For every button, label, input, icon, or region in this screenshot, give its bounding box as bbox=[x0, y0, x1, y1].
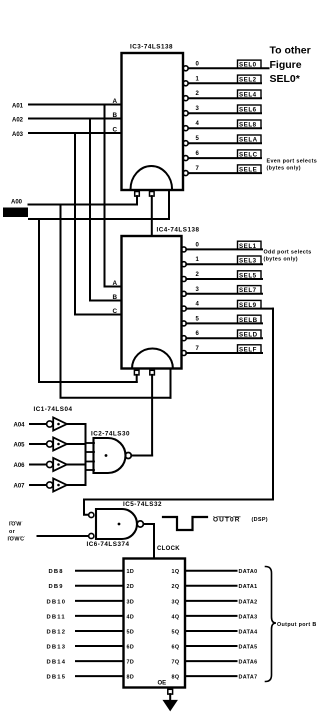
svg-text:2: 2 bbox=[196, 91, 200, 97]
wire IC3 output 4 bbox=[188, 127, 261, 129]
pin IC4 G2B bubble bbox=[150, 370, 155, 375]
node SELD* label box bbox=[238, 330, 262, 338]
gate IC5 74LS32 OR (DeMorgan AND body) bbox=[96, 509, 137, 539]
svg-text:A: A bbox=[113, 280, 118, 287]
pin bubble IC4 Y1 bbox=[181, 262, 186, 267]
svg-text:8D: 8D bbox=[127, 675, 135, 681]
wire pin 1Q to DATA0 bbox=[185, 570, 237, 572]
wire IC4 output 5 bbox=[186, 322, 262, 324]
svg-text:6: 6 bbox=[196, 331, 200, 337]
svg-text:1D: 1D bbox=[127, 569, 135, 575]
svg-text:7Q: 7Q bbox=[172, 660, 180, 666]
node SEL5* label box bbox=[238, 271, 262, 279]
svg-text:SELC: SELC bbox=[239, 152, 258, 159]
wire IOWC to IC5 input bbox=[38, 535, 89, 537]
svg-text:3D: 3D bbox=[127, 599, 135, 605]
wire IC4 G2B / IC2 output riser bbox=[151, 375, 153, 456]
svg-text:Figure: Figure bbox=[270, 59, 302, 71]
node SEL6* label box bbox=[238, 105, 262, 113]
svg-text:SEL5: SEL5 bbox=[239, 272, 257, 279]
node SELF* label box bbox=[238, 345, 262, 353]
wire DB13 to pin 6D bbox=[76, 645, 124, 647]
svg-text:SELA: SELA bbox=[239, 137, 258, 144]
node SELE* label box bbox=[238, 165, 262, 173]
node SELC* label box bbox=[238, 150, 262, 158]
svg-text:IC6-74LS374: IC6-74LS374 bbox=[87, 541, 130, 548]
pin IC3 G2B bubble bbox=[150, 192, 155, 197]
wire BHE branch down to IC4 G2A bbox=[39, 219, 137, 382]
svg-text:(bytes only): (bytes only) bbox=[267, 166, 301, 172]
wire IC3 output 2 bbox=[188, 97, 261, 99]
wire IC3 output 1 bbox=[188, 82, 261, 84]
wire BHE to IC3 G1/G2B bbox=[29, 218, 169, 220]
svg-text:DATA3: DATA3 bbox=[239, 614, 258, 620]
node SELB* label box bbox=[238, 315, 262, 323]
pin bubble IC4 Y5 bbox=[181, 321, 186, 326]
IC4 enable AND dome bbox=[132, 348, 173, 368]
wire IC3 output 0 bbox=[188, 67, 268, 69]
wire A03 drop to IC4 pin C bbox=[75, 133, 122, 315]
svg-text:SEL6: SEL6 bbox=[239, 107, 257, 114]
svg-text:5: 5 bbox=[196, 136, 200, 142]
svg-text:1: 1 bbox=[196, 76, 200, 82]
wire IC3 G2B stub down to IC4 top bbox=[151, 196, 153, 236]
svg-text:Even port selects: Even port selects bbox=[267, 159, 318, 165]
svg-text:DATA7: DATA7 bbox=[239, 675, 258, 681]
svg-text:SEL0: SEL0 bbox=[239, 62, 257, 69]
wire IC4 output 3 bbox=[186, 293, 262, 295]
svg-text:DB14: DB14 bbox=[47, 660, 67, 666]
svg-text:DATA2: DATA2 bbox=[239, 599, 258, 605]
svg-text:DB8: DB8 bbox=[49, 569, 64, 575]
svg-text:8Q: 8Q bbox=[172, 675, 180, 681]
inverter 1 of IC1 (bubble + triangle) bbox=[47, 421, 53, 427]
node SEL9* label box bbox=[238, 300, 262, 308]
svg-text:4Q: 4Q bbox=[172, 614, 180, 620]
pin bubble IC4 Y7 bbox=[181, 351, 186, 356]
svg-text:7D: 7D bbox=[127, 660, 135, 666]
wire IC3 output 5 bbox=[188, 142, 261, 144]
svg-text:A00: A00 bbox=[11, 200, 23, 206]
pin bubble IC3 Y2 bbox=[183, 96, 188, 101]
wire A06 to inverter bbox=[30, 464, 47, 466]
svg-text:SEL3: SEL3 bbox=[239, 258, 257, 265]
svg-text:SEL9: SEL9 bbox=[239, 302, 257, 309]
svg-text:7: 7 bbox=[196, 166, 200, 172]
svg-text:IC2-74LS30: IC2-74LS30 bbox=[91, 431, 130, 438]
wire inverter 3 output to IC2 input rail bbox=[67, 464, 86, 466]
gate IC2 74LS30 NAND body bbox=[94, 438, 126, 473]
node SEL8* label box bbox=[238, 120, 262, 128]
svg-text:1Q: 1Q bbox=[172, 569, 180, 575]
svg-text:DATA0: DATA0 bbox=[239, 569, 258, 575]
svg-text:A04: A04 bbox=[14, 423, 26, 429]
svg-text:CLOCK: CLOCK bbox=[157, 546, 180, 552]
node SEL0* label box bbox=[238, 60, 262, 68]
wire pin 3Q to DATA2 bbox=[185, 600, 237, 602]
wire IC4 output 2 bbox=[186, 278, 262, 280]
svg-text:DB10: DB10 bbox=[47, 599, 67, 605]
svg-text:(bytes only): (bytes only) bbox=[264, 257, 298, 263]
wire A01 drop to IC4 pin A bbox=[105, 105, 122, 287]
pin bubble IC5 input bottom bbox=[89, 533, 94, 538]
node clock waveform pulse bbox=[163, 517, 207, 530]
pin bubble IC5 input top bbox=[89, 512, 94, 517]
wire SEL9 route right and down to IC5 input bbox=[84, 309, 273, 515]
svg-text:3Q: 3Q bbox=[172, 599, 180, 605]
svg-text:SEL0*: SEL0* bbox=[270, 73, 301, 85]
svg-text:A07: A07 bbox=[14, 484, 26, 490]
IC IC4 74LS138 decoder body bbox=[122, 236, 182, 369]
wire DB8 to pin 1D bbox=[76, 570, 124, 572]
wire pin 5Q to DATA4 bbox=[185, 630, 237, 632]
svg-text:SELE: SELE bbox=[239, 167, 257, 174]
svg-text:or: or bbox=[9, 529, 16, 535]
pin bubble IC3 Y4 bbox=[183, 126, 188, 131]
pin bubble IC3 Y0 bbox=[183, 66, 188, 71]
IC IC3 74LS138 decoder body bbox=[122, 53, 184, 190]
svg-text:SELF: SELF bbox=[239, 346, 257, 353]
wire IC4 output 0 bbox=[186, 248, 262, 250]
svg-text:C: C bbox=[113, 308, 118, 315]
svg-text:DATA4: DATA4 bbox=[239, 629, 258, 635]
wire inverter 4 output to IC2 input rail bbox=[67, 484, 86, 486]
svg-text:4: 4 bbox=[196, 121, 200, 127]
svg-text:OUT0R: OUT0R bbox=[213, 517, 241, 524]
pin bubble IC2 output bbox=[125, 453, 131, 459]
svg-text:A02: A02 bbox=[12, 118, 24, 124]
wire DB15 to pin 8D bbox=[76, 675, 124, 677]
pin bubble IC5 output bbox=[137, 521, 143, 527]
svg-text:1: 1 bbox=[196, 257, 200, 263]
brace Output port B bbox=[266, 567, 277, 682]
svg-text:DB9: DB9 bbox=[49, 584, 64, 590]
wire inverter 2 output to IC2 input rail bbox=[67, 443, 86, 445]
wire inverter 1 output to IC2 input rail bbox=[67, 423, 86, 425]
pin bubble IC3 Y1 bbox=[183, 81, 188, 86]
svg-text:2: 2 bbox=[196, 272, 200, 278]
node BHE label bbox=[3, 208, 28, 218]
svg-text:SELD: SELD bbox=[239, 332, 258, 339]
wire IC4 output 6 bbox=[186, 337, 262, 339]
wire OE to ground bbox=[169, 694, 171, 701]
wire DB14 to pin 7D bbox=[76, 660, 124, 662]
svg-text:SELB: SELB bbox=[239, 317, 258, 324]
wire A00 branch down to IC4 enable rail bbox=[61, 205, 171, 398]
wire IC4 output 4 bbox=[186, 308, 273, 310]
wire IC3 output 3 bbox=[188, 112, 261, 114]
wire A07 to inverter bbox=[30, 484, 47, 486]
wire IC2 input stubs bbox=[86, 442, 95, 444]
node SEL1* label box bbox=[238, 241, 262, 249]
svg-text:IC5-74LS32: IC5-74LS32 bbox=[123, 501, 162, 508]
svg-text:3: 3 bbox=[196, 287, 200, 293]
wire IC2 input collector rail bbox=[85, 424, 87, 485]
svg-text:Output port B: Output port B bbox=[277, 622, 317, 628]
wire DB11 to pin 4D bbox=[76, 615, 124, 617]
pin bubble IC4 Y4 bbox=[181, 306, 186, 311]
wire A01 to IC3 pin A bbox=[29, 104, 122, 106]
svg-text:SEL4: SEL4 bbox=[239, 92, 257, 99]
wire DB10 to pin 3D bbox=[76, 600, 124, 602]
node SEL2* label box bbox=[238, 75, 262, 83]
wire IC4 output 1 bbox=[186, 263, 262, 265]
svg-text:5Q: 5Q bbox=[172, 629, 180, 635]
svg-text:6: 6 bbox=[196, 151, 200, 157]
svg-text:DB15: DB15 bbox=[47, 675, 67, 681]
wire A05 to inverter bbox=[30, 443, 47, 445]
svg-text:2D: 2D bbox=[127, 584, 135, 590]
svg-text:6D: 6D bbox=[127, 644, 135, 650]
svg-text:0: 0 bbox=[196, 61, 200, 67]
node SEL3* label box bbox=[238, 256, 262, 264]
pin bubble IC3 Y3 bbox=[183, 111, 188, 116]
svg-text:DATA1: DATA1 bbox=[239, 584, 258, 590]
wire A04 to inverter bbox=[30, 423, 47, 425]
svg-text:(DSP): (DSP) bbox=[252, 517, 268, 523]
wire pin 2Q to DATA1 bbox=[185, 585, 237, 587]
pin bubble IC4 Y3 bbox=[181, 291, 186, 296]
wire IC4 output 7 bbox=[186, 352, 262, 354]
svg-text:SEL7: SEL7 bbox=[239, 287, 257, 294]
pin bubble IC3 Y6 bbox=[183, 156, 188, 161]
svg-text:5: 5 bbox=[196, 316, 200, 322]
svg-text:2Q: 2Q bbox=[172, 584, 180, 590]
svg-text:DB12: DB12 bbox=[47, 629, 67, 635]
wire pin 4Q to DATA3 bbox=[185, 615, 237, 617]
svg-text:DB11: DB11 bbox=[47, 614, 66, 620]
svg-text:7: 7 bbox=[196, 346, 200, 352]
svg-text:To other: To other bbox=[270, 45, 311, 57]
pin bubble IC4 Y6 bbox=[181, 336, 186, 341]
svg-text:B: B bbox=[113, 294, 118, 301]
svg-text:5D: 5D bbox=[127, 629, 135, 635]
svg-text:DATA5: DATA5 bbox=[239, 644, 258, 650]
svg-text:SEL2: SEL2 bbox=[239, 77, 257, 84]
wire IC3 output 7 bbox=[188, 172, 261, 174]
svg-text:BHE: BHE bbox=[6, 211, 21, 218]
svg-text:A01: A01 bbox=[12, 104, 24, 110]
svg-text:IC1-74LS04: IC1-74LS04 bbox=[34, 406, 73, 413]
pin bubble IC3 Y7 bbox=[183, 171, 188, 176]
svg-text:A03: A03 bbox=[12, 132, 24, 138]
node SEL4* label box bbox=[238, 90, 262, 98]
node SEL7* label box bbox=[238, 286, 262, 294]
inverter 2 of IC1 (bubble + triangle) bbox=[47, 441, 53, 447]
ground bbox=[164, 701, 177, 711]
pin bubble IC3 Y5 bbox=[183, 141, 188, 146]
svg-text:DATA6: DATA6 bbox=[239, 660, 258, 666]
wire A03 to IC3 pin C bbox=[29, 132, 122, 134]
wire IC3 output 6 bbox=[188, 157, 261, 159]
node SELA* label box bbox=[238, 135, 262, 143]
wire IC3 G1 stub bbox=[168, 190, 170, 219]
svg-text:OE: OE bbox=[158, 680, 167, 686]
svg-text:IC4-74LS138: IC4-74LS138 bbox=[157, 227, 200, 234]
pin bubble IC4 Y2 bbox=[181, 277, 186, 282]
svg-text:4D: 4D bbox=[127, 614, 135, 620]
svg-text:IOW: IOW bbox=[9, 522, 22, 528]
svg-text:IOWC: IOWC bbox=[8, 537, 25, 543]
wire A02 to IC3 pin B bbox=[29, 118, 122, 120]
svg-text:4: 4 bbox=[196, 302, 200, 308]
pin bubble OE bbox=[168, 689, 173, 694]
inverter 3 of IC1 (bubble + triangle) bbox=[47, 461, 53, 467]
wire IC2 output to riser bbox=[131, 455, 152, 457]
svg-text:0: 0 bbox=[196, 242, 200, 248]
wire DB9 to pin 2D bbox=[76, 585, 124, 587]
svg-text:DB13: DB13 bbox=[47, 644, 67, 650]
pin bubble IC4 Y0 bbox=[181, 247, 186, 252]
svg-text:3: 3 bbox=[196, 106, 200, 112]
pin IC4 G2A bubble bbox=[134, 370, 139, 375]
svg-text:SEL1: SEL1 bbox=[239, 243, 257, 250]
IC3 enable AND dome bbox=[131, 166, 173, 189]
wire pin 8Q to DATA7 bbox=[185, 675, 237, 677]
svg-text:SEL8: SEL8 bbox=[239, 122, 257, 129]
wire pin 7Q to DATA6 bbox=[185, 660, 237, 662]
svg-text:IC3-74LS138: IC3-74LS138 bbox=[130, 44, 173, 51]
svg-text:A05: A05 bbox=[14, 443, 26, 449]
svg-text:6Q: 6Q bbox=[172, 644, 180, 650]
pin IC3 G2A bubble bbox=[135, 192, 140, 197]
svg-text:Odd port selects: Odd port selects bbox=[264, 250, 312, 256]
svg-text:A06: A06 bbox=[14, 463, 26, 469]
wire IC5 output to CLOCK bbox=[144, 524, 155, 559]
inverter 4 of IC1 (bubble + triangle) bbox=[47, 482, 53, 488]
wire A02 drop to IC4 pin B bbox=[90, 119, 122, 301]
wire DB12 to pin 5D bbox=[76, 630, 124, 632]
IC IC6 74LS374 octal latch body bbox=[124, 559, 186, 688]
wire IC4 G1 stub bbox=[170, 369, 172, 398]
wire A00 to IC3 G2A bbox=[29, 204, 138, 206]
wire pin 6Q to DATA5 bbox=[185, 645, 237, 647]
